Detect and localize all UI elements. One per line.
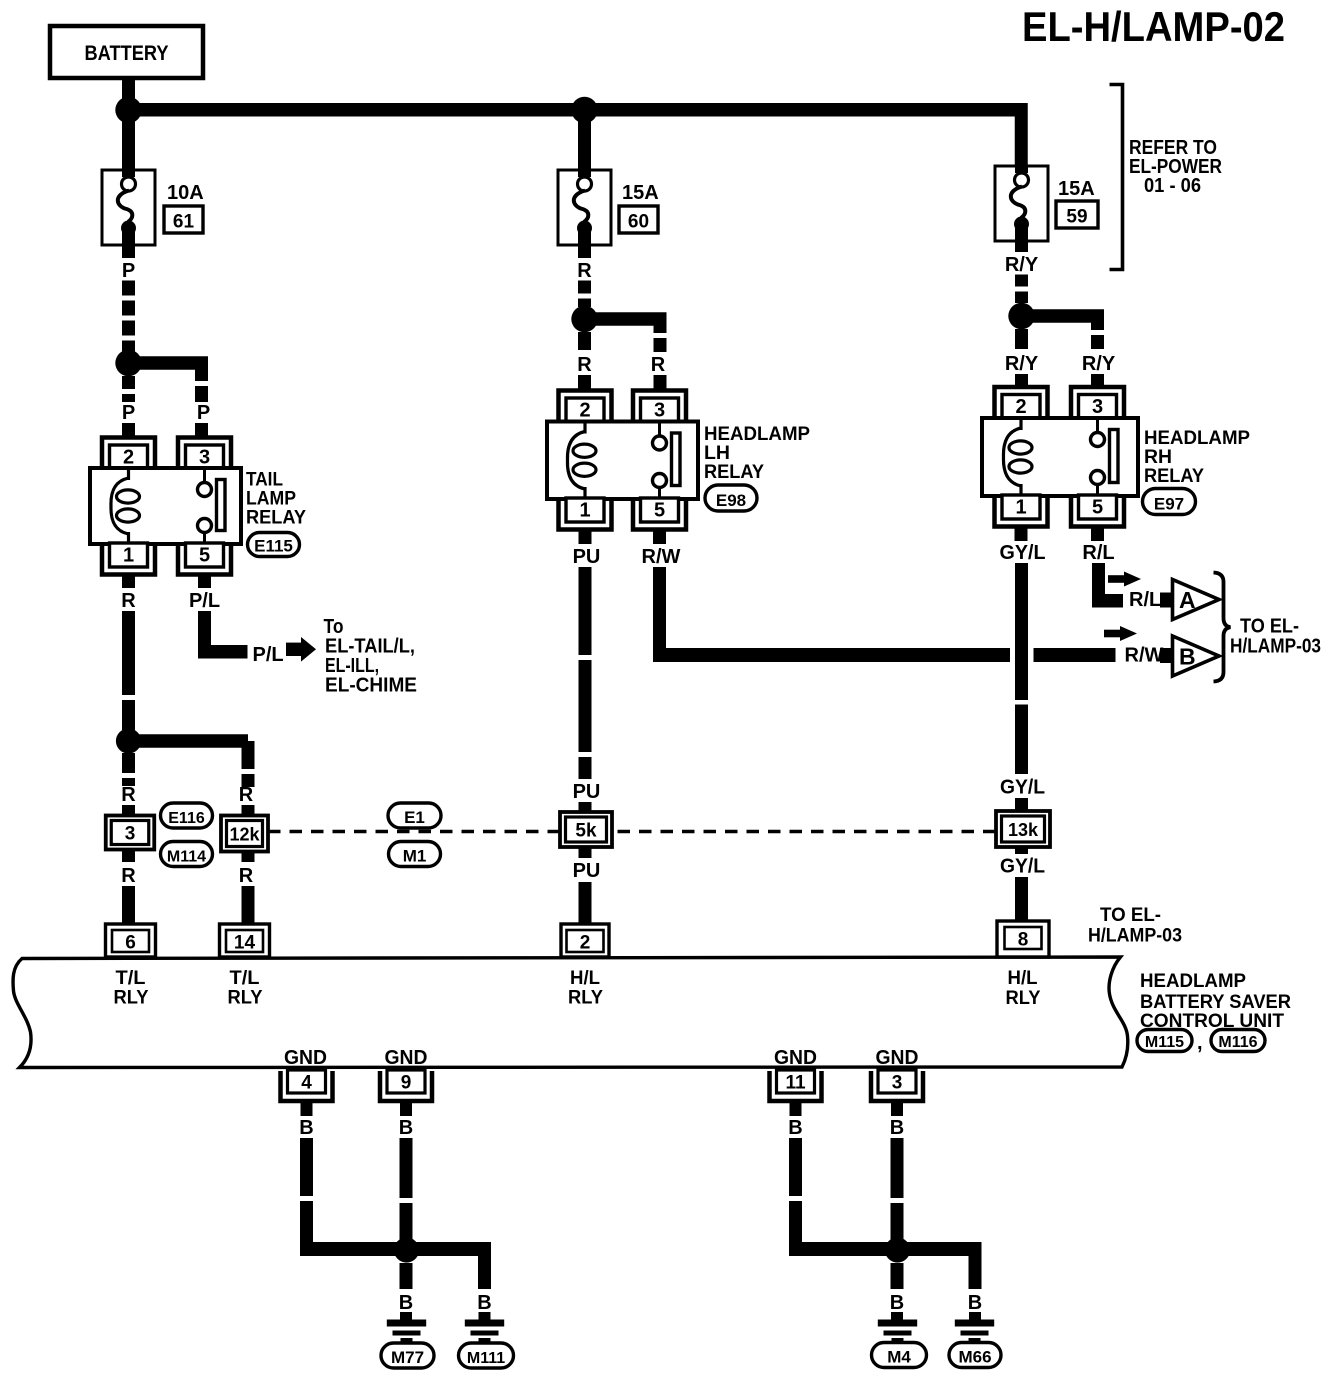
tail lamp relay E115 body bbox=[90, 468, 241, 544]
svg-text:M1: M1 bbox=[403, 847, 427, 866]
ground M77 symbol bbox=[387, 1320, 426, 1327]
svg-text:B: B bbox=[399, 1117, 413, 1139]
svg-text:R/W: R/W bbox=[1125, 645, 1164, 667]
tail lamp relay contact bbox=[203, 468, 206, 483]
svg-text:P/L: P/L bbox=[189, 590, 220, 612]
connector E1 bbox=[388, 803, 441, 828]
wire pin11 down bbox=[789, 1138, 802, 1242]
svg-text:RLY: RLY bbox=[114, 987, 149, 1009]
wire junction to splice 3 bbox=[122, 753, 135, 786]
svg-text:GND: GND bbox=[385, 1047, 428, 1069]
wire fuse60 out bbox=[578, 245, 591, 258]
svg-text:59: 59 bbox=[1066, 207, 1087, 228]
svg-text:R: R bbox=[121, 865, 136, 887]
wire junction to pin2 relay E115 bbox=[122, 376, 135, 402]
svg-text:GY/L: GY/L bbox=[1000, 856, 1045, 878]
svg-text:1: 1 bbox=[579, 500, 590, 522]
wire pin1 stub col3 bbox=[1015, 527, 1028, 542]
wire pin3 down bbox=[891, 1138, 904, 1240]
svg-text:1: 1 bbox=[123, 545, 134, 567]
brace to el-hlamp-03 bbox=[1214, 573, 1231, 682]
fuse 60 15A bbox=[558, 170, 611, 245]
arrow A small bbox=[1108, 575, 1124, 583]
wire branch to pin3 relay E97 bbox=[1022, 309, 1105, 323]
svg-text:14: 14 bbox=[234, 933, 256, 954]
svg-text:RELAY: RELAY bbox=[1144, 465, 1204, 487]
wire pin5 stub bbox=[198, 575, 211, 589]
svg-text:M77: M77 bbox=[391, 1348, 424, 1367]
fuse 61 10A bbox=[102, 170, 155, 245]
svg-text:1: 1 bbox=[1015, 497, 1026, 519]
pin 1 tail lamp relay bbox=[102, 543, 155, 575]
svg-text:E98: E98 bbox=[716, 491, 746, 510]
wire gnd bar left bbox=[300, 1242, 491, 1256]
svg-text:B: B bbox=[299, 1117, 313, 1139]
wire 5k to pin2 bbox=[579, 846, 592, 858]
svg-text:M114: M114 bbox=[167, 849, 206, 866]
wire splice3 to pin6 bbox=[122, 850, 135, 863]
svg-text:PU: PU bbox=[573, 860, 601, 882]
svg-text:B: B bbox=[399, 1292, 413, 1314]
wire P to junction bbox=[122, 281, 135, 353]
svg-text:TO EL-: TO EL- bbox=[1240, 616, 1299, 638]
node gnd junction right bbox=[885, 1237, 910, 1262]
pin 3 headlamp lh relay bbox=[633, 391, 686, 423]
wire pin1 stub col2 bbox=[579, 530, 592, 545]
svg-text:13k: 13k bbox=[1008, 820, 1039, 840]
wire pin3 stub bbox=[891, 1101, 903, 1116]
gnd pin 9 bbox=[380, 1071, 432, 1101]
pin 14 control unit bbox=[220, 924, 270, 957]
svg-text:5k: 5k bbox=[575, 821, 597, 842]
svg-text:9: 9 bbox=[401, 1073, 412, 1094]
arrow B small bbox=[1104, 630, 1120, 638]
ground M66 symbol bbox=[955, 1320, 994, 1327]
wire below junction right bbox=[891, 1263, 904, 1289]
wire pin5 stub col3 bbox=[1091, 527, 1104, 542]
wire R/L elbow bbox=[1092, 563, 1105, 601]
svg-text:A: A bbox=[1179, 587, 1196, 613]
connector E98 bbox=[705, 485, 757, 511]
svg-text:R: R bbox=[239, 865, 254, 887]
svg-text:M4: M4 bbox=[887, 1348, 911, 1367]
wire PU stub to 5k bbox=[579, 802, 592, 814]
svg-text:B: B bbox=[788, 1117, 802, 1139]
svg-text:GND: GND bbox=[774, 1047, 817, 1069]
connector M1 bbox=[389, 842, 441, 867]
svg-text:R: R bbox=[121, 784, 136, 806]
pin 3 tail lamp relay bbox=[178, 438, 231, 470]
svg-text:P: P bbox=[122, 260, 135, 282]
splice 13k bbox=[996, 811, 1050, 847]
svg-text:3: 3 bbox=[125, 824, 136, 845]
pin 1 headlamp lh relay bbox=[559, 498, 612, 530]
svg-text:3: 3 bbox=[1092, 396, 1103, 418]
gnd pin 11 bbox=[770, 1071, 822, 1101]
dashed splice line bbox=[268, 830, 560, 834]
connector M66 bbox=[949, 1343, 1001, 1368]
svg-text:R/L: R/L bbox=[1129, 589, 1161, 611]
wire pin9 stub bbox=[400, 1101, 412, 1116]
wire pin1 stub bbox=[122, 575, 135, 589]
wire below junction left bbox=[400, 1263, 413, 1289]
wire pin4 down bbox=[300, 1138, 313, 1242]
ground M4 symbol bbox=[878, 1320, 917, 1327]
connector M114 bbox=[161, 842, 213, 867]
triangle connector B bbox=[1173, 636, 1220, 676]
wire to ground M66 bbox=[969, 1312, 981, 1320]
node R junction col2 bbox=[571, 306, 597, 332]
svg-text:R: R bbox=[121, 590, 136, 612]
wire R to junction col2 bbox=[578, 281, 591, 308]
stub before B bbox=[1160, 648, 1173, 663]
svg-text:01 - 06: 01 - 06 bbox=[1144, 175, 1201, 197]
svg-text:15A: 15A bbox=[622, 182, 659, 204]
tail lamp relay coil bbox=[127, 469, 130, 480]
connector M77 bbox=[381, 1343, 434, 1368]
svg-text:R: R bbox=[239, 784, 254, 806]
wire to ground M77 bbox=[400, 1312, 412, 1320]
svg-text:2: 2 bbox=[1015, 396, 1026, 418]
gnd pin 4 bbox=[281, 1071, 333, 1101]
node bus junction middle bbox=[571, 97, 597, 123]
svg-text:PU: PU bbox=[573, 546, 601, 568]
svg-text:5: 5 bbox=[654, 500, 665, 522]
svg-text:B: B bbox=[477, 1292, 491, 1314]
svg-text:12k: 12k bbox=[229, 825, 260, 845]
svg-text:60: 60 bbox=[628, 212, 649, 233]
svg-text:RLY: RLY bbox=[1006, 987, 1041, 1009]
wire fuse61 out bbox=[122, 245, 135, 258]
wire R/W elbow bbox=[653, 567, 666, 655]
splice 3 bbox=[106, 816, 155, 850]
wire 13k to pin8 bbox=[1015, 847, 1028, 854]
svg-text:P: P bbox=[197, 402, 210, 424]
svg-text:RELAY: RELAY bbox=[246, 507, 306, 529]
wire R down to junction bbox=[122, 611, 135, 735]
gnd pin 3 bbox=[871, 1071, 923, 1101]
node R junction bbox=[116, 728, 141, 753]
bus wire bbox=[129, 103, 1022, 117]
svg-text:61: 61 bbox=[173, 212, 195, 233]
pin 5 headlamp rh relay bbox=[1071, 495, 1124, 527]
connector M115 bbox=[1137, 1030, 1192, 1052]
connector M111 bbox=[459, 1343, 514, 1368]
svg-text:E116: E116 bbox=[168, 810, 205, 827]
svg-text:R: R bbox=[577, 260, 592, 282]
wire GY/L stub to 13k bbox=[1015, 798, 1028, 811]
wire junction to pin2 relay E97 bbox=[1015, 329, 1028, 349]
svg-text:GND: GND bbox=[284, 1047, 327, 1069]
pin 3 headlamp rh relay bbox=[1071, 387, 1124, 419]
arrow to el-tail bbox=[286, 643, 301, 656]
svg-text:RLY: RLY bbox=[228, 987, 263, 1009]
pin 1 headlamp rh relay bbox=[995, 495, 1048, 527]
wire bus to fuse 60 bbox=[578, 110, 591, 170]
bracket refer to el-power bbox=[1110, 85, 1123, 270]
headlamp lh relay contact bbox=[658, 422, 661, 437]
svg-text:B: B bbox=[1179, 644, 1196, 670]
pin 8 control unit bbox=[997, 921, 1049, 957]
wire pin11 stub bbox=[790, 1101, 802, 1116]
wire pin4 stub bbox=[301, 1101, 313, 1116]
fuse 59 15A bbox=[995, 166, 1048, 241]
headlamp rh relay E97 body bbox=[982, 418, 1138, 496]
svg-text:R: R bbox=[651, 354, 666, 376]
battery bbox=[50, 26, 203, 78]
connector M116 bbox=[1211, 1030, 1265, 1052]
wire to ground M111 bbox=[479, 1312, 491, 1320]
svg-text:H/LAMP-03: H/LAMP-03 bbox=[1230, 636, 1321, 658]
headlamp rh relay contact bbox=[1096, 418, 1099, 433]
svg-text:15A: 15A bbox=[1058, 178, 1095, 200]
svg-text:8: 8 bbox=[1018, 930, 1029, 951]
wire fuse59 out bbox=[1015, 241, 1028, 252]
svg-text:P: P bbox=[122, 402, 135, 424]
svg-text:TO EL-: TO EL- bbox=[1100, 904, 1161, 926]
svg-text:E97: E97 bbox=[1154, 494, 1184, 513]
svg-text:3: 3 bbox=[654, 400, 665, 422]
splice 5k bbox=[560, 812, 612, 847]
wire PU down bbox=[579, 567, 592, 779]
wire to ground M4 bbox=[891, 1312, 903, 1320]
wire branch to 12k bbox=[129, 734, 249, 748]
wire battery to bus bbox=[122, 78, 135, 103]
wire 12k to pin14 bbox=[242, 852, 255, 862]
svg-text:2: 2 bbox=[580, 933, 591, 954]
svg-text:B: B bbox=[968, 1292, 982, 1314]
wire right branch right group bbox=[969, 1249, 982, 1289]
svg-text:R/Y: R/Y bbox=[1005, 254, 1039, 276]
svg-text:3: 3 bbox=[199, 447, 210, 469]
svg-text:P/L: P/L bbox=[253, 644, 284, 666]
svg-text:M115: M115 bbox=[1145, 1034, 1184, 1051]
node RY junction bbox=[1008, 303, 1034, 329]
connector M4 bbox=[872, 1343, 927, 1368]
svg-text:E1: E1 bbox=[404, 808, 425, 827]
svg-text:BATTERY: BATTERY bbox=[85, 42, 169, 65]
headlamp battery saver control unit box bbox=[13, 957, 1128, 1068]
svg-text:GY/L: GY/L bbox=[1000, 777, 1045, 799]
wire gnd bar right bbox=[789, 1242, 982, 1256]
svg-text:EL-CHIME: EL-CHIME bbox=[325, 675, 417, 697]
svg-text:R: R bbox=[577, 354, 592, 376]
pin 2 tail lamp relay bbox=[102, 438, 155, 470]
svg-text:5: 5 bbox=[1092, 497, 1103, 519]
splice 12k bbox=[221, 816, 268, 852]
svg-text:R/W: R/W bbox=[642, 546, 681, 568]
svg-text:3: 3 bbox=[892, 1073, 903, 1094]
wire pin5 stub col2 bbox=[653, 530, 666, 545]
svg-text:RLY: RLY bbox=[568, 987, 603, 1009]
svg-text:11: 11 bbox=[785, 1073, 806, 1094]
svg-text:EL-H/LAMP-02: EL-H/LAMP-02 bbox=[1022, 3, 1285, 50]
svg-text:B: B bbox=[890, 1117, 904, 1139]
node battery junction bbox=[115, 97, 141, 123]
connector E97 bbox=[1143, 489, 1196, 515]
svg-text:B: B bbox=[890, 1292, 904, 1314]
connector E116 bbox=[161, 803, 213, 828]
node P junction bbox=[115, 350, 141, 376]
svg-text:R/L: R/L bbox=[1082, 542, 1114, 564]
wire pin9 down bbox=[400, 1138, 413, 1240]
svg-text:H/LAMP-03: H/LAMP-03 bbox=[1088, 925, 1182, 947]
svg-text:,: , bbox=[1197, 1032, 1203, 1054]
svg-text:2: 2 bbox=[579, 400, 590, 422]
svg-text:M66: M66 bbox=[958, 1348, 991, 1367]
pin 2 headlamp rh relay bbox=[995, 387, 1048, 419]
svg-text:H/L: H/L bbox=[1008, 967, 1038, 989]
headlamp rh relay coil bbox=[1019, 419, 1022, 430]
node gnd junction left bbox=[394, 1237, 419, 1262]
ground M111 symbol bbox=[465, 1320, 504, 1327]
svg-text:R/Y: R/Y bbox=[1082, 353, 1116, 375]
svg-text:HEADLAMP: HEADLAMP bbox=[1140, 970, 1246, 992]
svg-text:2: 2 bbox=[123, 447, 134, 469]
pin 5 headlamp lh relay bbox=[633, 498, 686, 530]
svg-text:10A: 10A bbox=[167, 182, 204, 204]
pin 5 tail lamp relay bbox=[178, 543, 231, 575]
headlamp lh relay coil bbox=[583, 423, 586, 434]
stub before A bbox=[1160, 593, 1173, 608]
pin 6 control unit bbox=[106, 924, 156, 957]
svg-text:PU: PU bbox=[573, 781, 601, 803]
wire branch to pin3 relay E98 bbox=[585, 312, 667, 326]
pin 2 headlamp lh relay bbox=[559, 391, 612, 423]
wire RY to junction bbox=[1015, 275, 1028, 304]
wire R/W horizontal bbox=[653, 648, 1010, 662]
wire P/L elbow bbox=[198, 611, 211, 652]
svg-text:E115: E115 bbox=[254, 537, 293, 556]
svg-text:M116: M116 bbox=[1218, 1034, 1257, 1051]
pin 2 control unit bbox=[561, 924, 609, 957]
svg-text:M111: M111 bbox=[467, 1350, 505, 1367]
svg-text:GY/L: GY/L bbox=[1000, 542, 1046, 564]
svg-text:R/Y: R/Y bbox=[1005, 353, 1039, 375]
svg-text:6: 6 bbox=[125, 933, 136, 954]
wire GY/L down bbox=[1015, 563, 1028, 700]
triangle connector A bbox=[1173, 580, 1220, 620]
headlamp lh relay E98 body bbox=[547, 422, 698, 500]
svg-text:GND: GND bbox=[876, 1047, 919, 1069]
wire branch to pin3 relay E115 bbox=[129, 356, 209, 370]
wire bus to fuse 61 bbox=[122, 110, 135, 170]
wire junction to pin2 relay E98 bbox=[578, 332, 591, 350]
connector E115 bbox=[248, 533, 300, 557]
svg-text:4: 4 bbox=[301, 1073, 312, 1094]
svg-text:RELAY: RELAY bbox=[704, 461, 764, 483]
svg-text:5: 5 bbox=[199, 545, 210, 567]
wire right branch left group bbox=[478, 1249, 491, 1289]
